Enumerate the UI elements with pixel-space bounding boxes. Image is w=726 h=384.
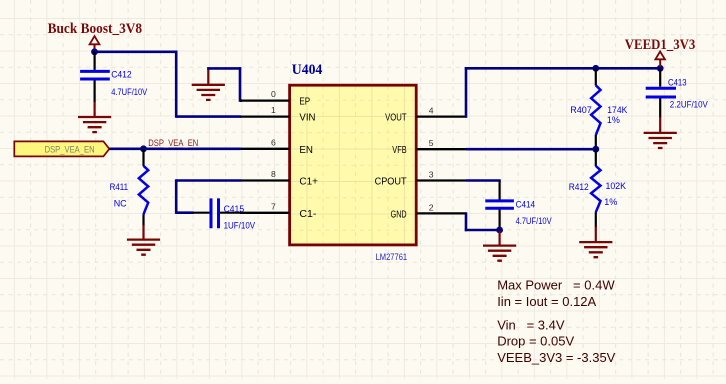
svg-text:CPOUT: CPOUT xyxy=(375,177,408,188)
svg-text:DSP_VEA_EN: DSP_VEA_EN xyxy=(45,144,95,154)
wire C1+ net horizontal xyxy=(176,179,241,182)
pin 2 (GND) of U404 xyxy=(417,212,467,214)
svg-text:Max Power = 0.4W: Max Power = 0.4W xyxy=(497,278,615,293)
port DSP_VEA_EN text xyxy=(45,144,95,154)
pin name VFB xyxy=(392,145,406,156)
capacitor C412 xyxy=(80,52,110,103)
svg-text:6: 6 xyxy=(271,137,276,147)
pin number 2 xyxy=(429,202,434,212)
wire VOUT vertical riser xyxy=(465,67,468,118)
pin name EP xyxy=(299,97,310,108)
svg-text:U404: U404 xyxy=(292,62,323,78)
R412 tolerance label 1% xyxy=(604,197,617,207)
svg-text:Vin = 3.4V: Vin = 3.4V xyxy=(497,318,565,333)
power port label VEED1_3V3 xyxy=(625,37,696,53)
annotation text: Drop xyxy=(497,334,574,349)
junction EN / R411 xyxy=(140,145,147,152)
C413 designator label xyxy=(668,77,687,87)
capacitor C414 xyxy=(485,181,514,231)
svg-text:VEED1_3V3: VEED1_3V3 xyxy=(625,37,696,53)
svg-text:R412: R412 xyxy=(569,182,589,192)
pin 1 (VIN) of U404 xyxy=(240,115,290,117)
C414 designator label xyxy=(516,200,536,210)
svg-text:C414: C414 xyxy=(516,200,536,210)
op-amp / IC U404 body xyxy=(290,85,417,245)
svg-text:C1+: C1+ xyxy=(299,177,318,188)
wire C1- net to C415 xyxy=(176,211,193,214)
svg-text:1: 1 xyxy=(271,105,276,115)
resistor R412 xyxy=(591,149,600,227)
svg-text:VOUT: VOUT xyxy=(385,113,407,124)
svg-text:NC: NC xyxy=(114,198,127,208)
svg-text:4.7UF/10V: 4.7UF/10V xyxy=(111,87,147,97)
pin 7 (C1-) of U404 xyxy=(240,212,290,214)
C413 value label 2.2UF/10V xyxy=(670,100,708,110)
power port VEED1_3V3 xyxy=(655,52,665,68)
pin number 6 xyxy=(271,137,276,147)
resistor R411 xyxy=(139,149,148,226)
pin number 7 xyxy=(271,201,276,211)
junction Buck Boost rail / C412 xyxy=(91,48,98,55)
annotation text: Vin xyxy=(497,318,565,333)
R407 value label 174K xyxy=(607,105,627,115)
svg-text:174K: 174K xyxy=(607,105,627,115)
wire C1 loop vertical xyxy=(175,179,178,214)
svg-text:R407: R407 xyxy=(570,105,592,115)
wire EP ground horizontal xyxy=(207,67,241,70)
svg-text:LM27761: LM27761 xyxy=(376,252,408,262)
pin name EN xyxy=(299,145,313,156)
svg-text:C1-: C1- xyxy=(299,209,316,220)
svg-text:EN: EN xyxy=(299,145,313,156)
svg-text:2: 2 xyxy=(429,202,434,212)
port DSP_VEA_EN (sheet entry flag) xyxy=(14,141,109,156)
svg-text:0: 0 xyxy=(271,89,276,99)
C415 designator label xyxy=(224,204,245,214)
svg-text:102K: 102K xyxy=(606,181,627,191)
pin name GND xyxy=(391,209,407,220)
svg-text:EP: EP xyxy=(299,97,310,108)
svg-text:7: 7 xyxy=(271,201,276,211)
pin 6 (EN) of U404 xyxy=(240,148,290,150)
svg-text:2.2UF/10V: 2.2UF/10V xyxy=(670,100,708,110)
svg-text:3: 3 xyxy=(429,170,434,180)
R407 designator label xyxy=(570,105,592,115)
net label DSP_VEA_EN xyxy=(148,138,198,148)
wire GND pin horizontal to C414 xyxy=(465,229,500,232)
pin 3 (CPOUT) of U404 xyxy=(417,179,467,181)
pin name C1+ xyxy=(299,177,318,188)
power port Buck Boost_3V8 xyxy=(90,36,100,52)
R407 tolerance label 1% xyxy=(607,115,620,125)
ground (below R412) xyxy=(579,227,612,258)
svg-text:DSP_VEA_EN: DSP_VEA_EN xyxy=(148,138,198,148)
wire Buck Boost_3V8 rail horizontal xyxy=(95,50,178,53)
svg-text:VEEB_3V3 = -3.35V: VEEB_3V3 = -3.35V xyxy=(497,350,615,365)
annotation text: Max Power xyxy=(497,278,615,293)
pin number 5 xyxy=(429,138,434,148)
junction VOUT rail / C413 / port xyxy=(657,65,664,72)
pin number 4 xyxy=(429,106,434,116)
annotation text: VEEB_3V3 xyxy=(497,350,615,365)
R411 value label NC xyxy=(114,198,127,208)
svg-text:1UF/10V: 1UF/10V xyxy=(224,221,256,231)
wire EN net xyxy=(109,148,241,151)
svg-text:C412: C412 xyxy=(111,70,132,80)
ground (below C414) xyxy=(483,231,516,261)
pin name VOUT xyxy=(385,113,407,124)
pin name CPOUT xyxy=(375,177,408,188)
wire to VIN pin xyxy=(176,115,241,118)
pin name VIN xyxy=(299,113,315,124)
pin number 3 xyxy=(429,170,434,180)
svg-text:Drop = 0.05V: Drop = 0.05V xyxy=(497,334,574,349)
C415 value label 1UF/10V xyxy=(224,221,256,231)
svg-text:1%: 1% xyxy=(604,197,617,207)
U404 comment label LM27761 xyxy=(376,252,408,262)
pin number 8 xyxy=(271,169,276,179)
pin number 1 xyxy=(271,105,276,115)
svg-text:C415: C415 xyxy=(224,204,245,214)
R412 designator label xyxy=(569,182,589,192)
wire VOUT rail to VEED1_3V3 xyxy=(465,67,660,70)
ground (below R411) xyxy=(127,225,160,255)
pin 4 (VOUT) of U404 xyxy=(417,115,467,117)
capacitor C415 xyxy=(192,198,240,228)
svg-text:5: 5 xyxy=(429,138,434,148)
C412 designator label xyxy=(111,70,132,80)
ground (below C412) xyxy=(78,102,111,132)
svg-text:R411: R411 xyxy=(110,182,129,192)
ground (below C413) xyxy=(644,117,677,148)
junction VOUT rail / R407 xyxy=(592,65,599,72)
R411 designator label xyxy=(110,182,129,192)
pin name C1- xyxy=(299,209,316,220)
pin number 0 xyxy=(271,89,276,99)
wire CPOUT net xyxy=(466,179,501,182)
ground (EP pin) xyxy=(192,67,225,100)
svg-text:Iin = Iout = 0.12A: Iin = Iout = 0.12A xyxy=(497,294,596,309)
pin 5 (VFB) of U404 xyxy=(417,148,467,150)
junction VFB / R407 / R412 xyxy=(592,146,599,153)
svg-text:Buck Boost_3V8: Buck Boost_3V8 xyxy=(48,21,143,37)
svg-text:GND: GND xyxy=(391,209,407,220)
annotation text: Iin xyxy=(497,294,596,309)
svg-text:VFB: VFB xyxy=(392,145,406,156)
svg-text:C413: C413 xyxy=(668,77,687,87)
svg-text:8: 8 xyxy=(271,169,276,179)
wire GND pin vertical xyxy=(465,212,468,231)
resistor R407 xyxy=(591,68,600,149)
wire EP vertical to pin 0 xyxy=(240,67,242,102)
svg-text:4: 4 xyxy=(429,106,434,116)
R412 value label 102K xyxy=(606,181,627,191)
wire VFB net xyxy=(466,148,596,151)
pin 8 (C1+) of U404 xyxy=(240,179,290,181)
pin 0 (EP) of U404 xyxy=(240,99,290,101)
svg-text:4.7UF/10V: 4.7UF/10V xyxy=(516,216,552,226)
wire Buck Boost_3V8 vertical drop xyxy=(175,51,178,118)
capacitor C413 xyxy=(646,68,676,117)
U404 designator label xyxy=(292,62,323,78)
C412 value label 4.7UF/10V xyxy=(111,87,147,97)
C414 value label 4.7UF/10V xyxy=(516,216,552,226)
power port label Buck Boost_3V8 xyxy=(48,21,143,37)
svg-text:1%: 1% xyxy=(607,115,620,125)
junction GND / C414 / ground xyxy=(496,227,503,234)
svg-text:VIN: VIN xyxy=(299,113,315,124)
